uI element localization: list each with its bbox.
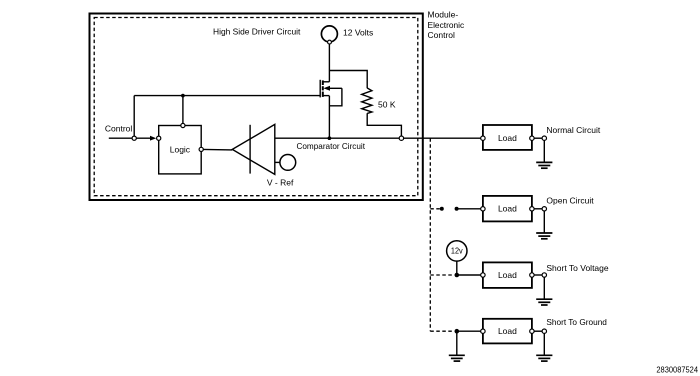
inner dashed box: High Side Driver Circuit bbox=[94, 18, 418, 196]
node: open circle on control wire bbox=[132, 136, 136, 140]
wire: stem to left ground bbox=[456, 331, 458, 355]
wire: dashed stub open circuit row bbox=[430, 208, 440, 210]
wire: open circuit row to load bbox=[457, 208, 483, 210]
junction dot short-to-voltage bbox=[455, 273, 460, 278]
logic box U1 bbox=[159, 126, 202, 174]
svg-text:Load: Load bbox=[498, 326, 517, 336]
wire: vertical down to Logic top bbox=[182, 96, 184, 126]
load box 1 bbox=[483, 125, 532, 150]
ground (short-to-ground left) bbox=[449, 355, 465, 361]
resistor R1 50 K bbox=[362, 88, 372, 113]
wire: dashed fault bus vertical bbox=[429, 138, 431, 331]
arrowhead on Control wire bbox=[150, 136, 156, 141]
svg-text:High Side Driver Circuit: High Side Driver Circuit bbox=[213, 26, 301, 36]
svg-text:12v: 12v bbox=[451, 247, 463, 256]
svg-text:Control: Control bbox=[105, 123, 133, 133]
wire: load 4 to ground node bbox=[534, 330, 542, 332]
wire: short-to-ground row to load bbox=[457, 330, 483, 332]
svg-text:Module-: Module- bbox=[428, 10, 459, 20]
svg-text:Load: Load bbox=[498, 270, 517, 280]
node circles load 1 bbox=[481, 136, 485, 140]
svg-text:12 Volts: 12 Volts bbox=[343, 27, 373, 37]
load box 3 bbox=[483, 262, 532, 288]
junction dot on gate line bbox=[181, 94, 185, 98]
wire: gate line from control node bbox=[134, 95, 320, 97]
svg-text:Load: Load bbox=[498, 204, 517, 214]
ground (short to voltage) bbox=[536, 299, 552, 305]
wire: branch to resistor top bbox=[329, 71, 367, 89]
wire: Control input bbox=[109, 137, 151, 139]
wire: vertical from control node up bbox=[133, 96, 135, 139]
svg-text:Short To Voltage: Short To Voltage bbox=[546, 263, 608, 273]
svg-text:Control: Control bbox=[428, 30, 456, 40]
comparator vertical bar bbox=[249, 125, 251, 174]
wire: resistor bottom to output line bbox=[367, 113, 401, 138]
wire: load 1 to ground node bbox=[534, 137, 542, 139]
node: small circle below supply bbox=[328, 40, 332, 44]
junction dot: MOSFET source to output bbox=[328, 136, 332, 140]
wire: ground stem 2 bbox=[543, 211, 545, 233]
wire: load 2 to ground node bbox=[534, 208, 542, 210]
wire: ground stem 4 bbox=[543, 333, 545, 355]
ground (normal circuit) bbox=[536, 162, 552, 168]
svg-text:50 K: 50 K bbox=[378, 100, 396, 110]
wire: short-to-voltage row to load bbox=[457, 274, 483, 276]
svg-text:Short To Ground: Short To Ground bbox=[546, 317, 607, 327]
node circles load 4 bbox=[481, 329, 485, 333]
transistor Q1 high-side MOSFET bbox=[320, 80, 342, 106]
node: open circle logic right pin bbox=[199, 147, 203, 151]
V-Ref circle bbox=[280, 155, 296, 171]
node: open-circuit break dot left bbox=[440, 207, 444, 211]
node: open circle resistor tap bbox=[399, 136, 403, 140]
svg-text:Normal Circuit: Normal Circuit bbox=[546, 125, 600, 135]
svg-text:Electronic: Electronic bbox=[428, 20, 465, 30]
node circles load 3 bbox=[481, 273, 485, 277]
12v source circle (short to voltage) bbox=[447, 241, 467, 261]
node circles load 2 bbox=[481, 207, 485, 211]
wire: dashed stub short-to-ground row bbox=[430, 330, 453, 332]
wire: logic output to comparator bbox=[203, 148, 232, 151]
wire: MOSFET source down to output line bbox=[328, 96, 330, 138]
svg-text:2830087524: 2830087524 bbox=[656, 365, 698, 375]
junction dot short-to-ground bbox=[455, 329, 460, 334]
load box 2 bbox=[483, 196, 532, 222]
wire: dashed stub short-to-voltage row bbox=[430, 274, 453, 276]
op-amp comparator U2 bbox=[232, 124, 274, 174]
wire: ground stem 1 bbox=[543, 140, 545, 162]
node: open circle logic top pin bbox=[181, 123, 185, 127]
outer solid box: Electronic Control Module bbox=[90, 14, 423, 201]
wire: V-Ref stub bbox=[275, 161, 280, 163]
svg-text:Open Circuit: Open Circuit bbox=[546, 195, 594, 205]
load box 4 bbox=[483, 319, 532, 344]
svg-text:V - Ref: V - Ref bbox=[267, 178, 294, 188]
svg-text:Load: Load bbox=[498, 133, 517, 143]
node: open-circuit break dot right bbox=[455, 207, 459, 211]
wire: load 3 to ground node bbox=[534, 274, 542, 276]
node: open circle logic left pin bbox=[157, 136, 161, 140]
wire: 12v circle down to node bbox=[456, 261, 458, 275]
svg-text:Logic: Logic bbox=[170, 145, 191, 155]
supply circle 12 Volts bbox=[321, 26, 337, 42]
svg-text:Comparator Circuit: Comparator Circuit bbox=[297, 141, 366, 151]
wire: supply vertical to MOSFET drain bbox=[328, 44, 330, 82]
ground (short to ground right) bbox=[536, 355, 552, 361]
wire: main output line bbox=[275, 137, 483, 139]
wire: ground stem 3 bbox=[543, 277, 545, 299]
ground (open circuit) bbox=[536, 233, 552, 239]
